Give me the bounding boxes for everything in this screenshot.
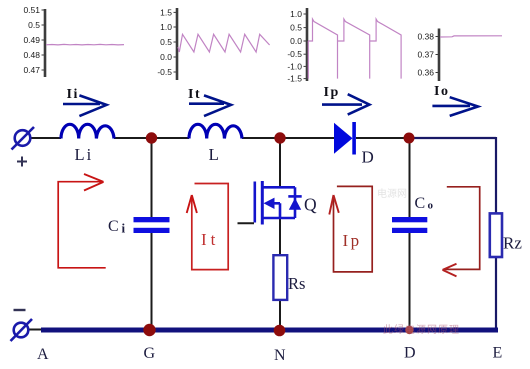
svg-text:Io: Io bbox=[434, 84, 449, 99]
svg-text:Ip: Ip bbox=[324, 85, 340, 100]
svg-text:Li: Li bbox=[75, 145, 94, 164]
svg-text:0.51: 0.51 bbox=[23, 5, 40, 15]
svg-text:-1.5: -1.5 bbox=[287, 74, 302, 84]
svg-text:0.38: 0.38 bbox=[417, 32, 434, 42]
svg-text:0.5: 0.5 bbox=[290, 23, 302, 33]
svg-text:Q: Q bbox=[304, 195, 317, 215]
svg-text:-0.5: -0.5 bbox=[157, 67, 172, 77]
svg-text:0.49: 0.49 bbox=[23, 35, 40, 45]
svg-text:D: D bbox=[362, 148, 374, 167]
svg-text:1.0: 1.0 bbox=[160, 22, 172, 32]
svg-text:0.36: 0.36 bbox=[417, 68, 434, 78]
svg-text:A: A bbox=[37, 346, 49, 363]
svg-text:i: i bbox=[122, 221, 126, 236]
svg-text:G: G bbox=[144, 345, 156, 362]
svg-text:Rz: Rz bbox=[503, 234, 522, 253]
svg-text:1.5: 1.5 bbox=[160, 7, 172, 17]
svg-text:D: D bbox=[404, 345, 416, 362]
svg-text:0.37: 0.37 bbox=[417, 50, 434, 60]
svg-text:0.47: 0.47 bbox=[23, 65, 40, 75]
svg-text:o: o bbox=[428, 200, 434, 212]
svg-text:C: C bbox=[415, 195, 426, 212]
svg-text:0.5: 0.5 bbox=[160, 37, 172, 47]
svg-text:0.5: 0.5 bbox=[28, 20, 40, 30]
svg-text:0.0: 0.0 bbox=[160, 52, 172, 62]
svg-text:此绿电源网原理: 此绿电源网原理 bbox=[383, 323, 460, 336]
svg-text:It: It bbox=[188, 87, 201, 102]
svg-text:Ip: Ip bbox=[343, 231, 362, 250]
svg-text:Rs: Rs bbox=[288, 274, 305, 293]
svg-text:It: It bbox=[201, 230, 219, 249]
svg-text:电源网: 电源网 bbox=[377, 187, 407, 200]
svg-text:0.48: 0.48 bbox=[23, 50, 40, 60]
svg-text:N: N bbox=[274, 347, 286, 364]
svg-text:0.0: 0.0 bbox=[290, 36, 302, 46]
svg-text:C: C bbox=[108, 218, 119, 235]
svg-text:-0.5: -0.5 bbox=[287, 49, 302, 59]
svg-text:E: E bbox=[493, 345, 503, 362]
svg-text:L: L bbox=[209, 145, 219, 164]
svg-text:Ii: Ii bbox=[67, 87, 79, 102]
svg-text:-1.0: -1.0 bbox=[287, 61, 302, 71]
svg-text:1.0: 1.0 bbox=[290, 9, 302, 19]
